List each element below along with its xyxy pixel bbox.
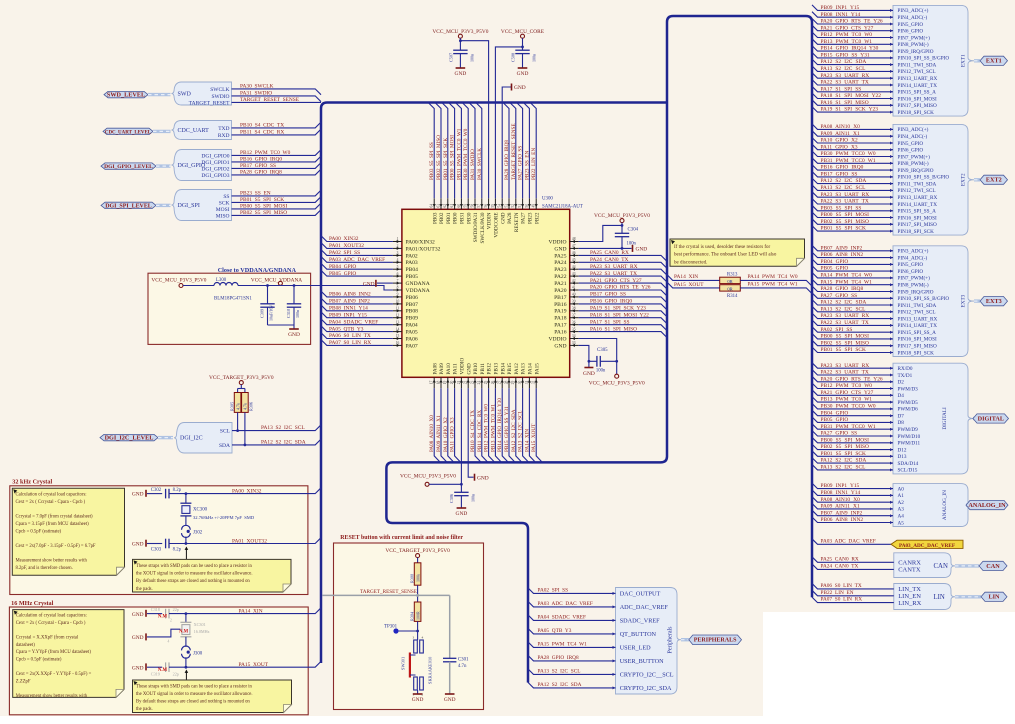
wire PB16_GPIO_IRQ0 xyxy=(579,304,667,310)
svg-text:CRYPTO_I2C_SDA: CRYPTO_I2C_SDA xyxy=(620,685,672,692)
wire PA23 S3 UART RX xyxy=(812,313,893,319)
svg-text:By default these straps are cl: By default these straps are closed and n… xyxy=(136,579,250,584)
svg-text:C306: C306 xyxy=(449,494,454,503)
wire PB06_AIN8_INN2 xyxy=(321,291,393,297)
callout arrow (16MHz strap note) xyxy=(185,672,187,681)
svg-text:PA23 S3 UART RX: PA23 S3 UART RX xyxy=(821,313,870,319)
svg-text:PB14 GPIO IRQ14 Y30: PB14 GPIO IRQ14 Y30 xyxy=(821,46,879,52)
svg-text:PA09 AIN11 X1: PA09 AIN11 X1 xyxy=(436,415,442,452)
wire PA30_SWCLK xyxy=(232,89,322,95)
wire PB00 S5 SPI MOSI xyxy=(812,437,893,443)
svg-text:PB05 GPIO: PB05 GPIO xyxy=(821,417,849,423)
svg-text:GND: GND xyxy=(455,71,467,77)
svg-text:Close to VDDANA/GNDANA: Close to VDDANA/GNDANA xyxy=(218,267,297,274)
svg-text:TXD: TXD xyxy=(218,126,229,132)
svg-text:A4: A4 xyxy=(898,514,905,520)
svg-text:PB01 S5 SPI SCK: PB01 S5 SPI SCK xyxy=(821,451,867,457)
svg-text:GND: GND xyxy=(500,212,506,223)
svg-text:ANALOG_IN: ANALOG_IN xyxy=(968,502,1006,509)
capacitor C305 100n xyxy=(589,360,597,362)
svg-text:A0: A0 xyxy=(898,486,905,492)
inductor L300 BLM18PG471SN1 xyxy=(214,283,238,286)
wire PA14_XIN xyxy=(169,613,186,615)
svg-text:GND: GND xyxy=(466,363,472,374)
wire PA23 S3 UART RX xyxy=(812,363,893,369)
svg-text:SCK: SCK xyxy=(219,200,230,206)
svg-text:PIN7_PWM(+): PIN7_PWM(+) xyxy=(898,34,931,41)
svg-text:C310: C310 xyxy=(286,309,291,318)
svg-text:PA25: PA25 xyxy=(554,253,566,259)
svg-text:PIN8_PWM(-): PIN8_PWM(-) xyxy=(898,282,929,289)
svg-text:Peripherals: Peripherals xyxy=(668,626,674,654)
svg-text:PB01 S5 SPI SCK: PB01 S5 SPI SCK xyxy=(821,347,867,353)
svg-text:PB11 S4 CDC RX: PB11 S4 CDC RX xyxy=(240,130,284,136)
wire VDDCORE feed xyxy=(495,47,522,198)
wire PA13 S2 I2C SCL xyxy=(812,464,893,470)
svg-text:PB17 GPIO SS: PB17 GPIO SS xyxy=(821,172,858,178)
svg-text:PB17: PB17 xyxy=(554,295,567,301)
svg-text:PIN3_ADC(+): PIN3_ADC(+) xyxy=(898,126,929,133)
wire PA13 S2 I2C SCL (peripherals) xyxy=(528,669,616,675)
svg-text:PA02 SPI SS: PA02 SPI SS xyxy=(538,587,569,593)
wire PA08 AIN10 X0 (bottom) xyxy=(434,388,440,462)
wire PB13 PWM TC0 W1 (bottom) xyxy=(495,388,501,462)
svg-text:Cext = 2x ( Ccrystal - Cpara -: Cext = 2x ( Ccrystal - Cpara - Cpcb ) xyxy=(16,500,86,505)
svg-text:These straps with SMD pads can: These straps with SMD pads can be used t… xyxy=(136,684,253,689)
svg-text:52: 52 xyxy=(511,204,515,208)
note strap explanation (32kHz) xyxy=(133,559,292,592)
svg-text:PA15 XOUT: PA15 XOUT xyxy=(674,282,704,288)
ground GND (C508) xyxy=(518,67,528,69)
wire VDDIO(34) to VCC xyxy=(579,339,617,375)
svg-text:DIGITAL: DIGITAL xyxy=(978,415,1004,422)
svg-text:PA23 S3 UART RX: PA23 S3 UART RX xyxy=(590,264,638,270)
svg-text:Ccrystal = X.XXpF (from crysta: Ccrystal = X.XXpF (from crystal xyxy=(16,636,79,641)
svg-text:Cpara = 3.15pF (from MCU datas: Cpara = 3.15pF (from MCU datasheet) xyxy=(16,522,90,527)
wire PA22_S3_UART_TX xyxy=(579,276,667,282)
harness cable DGI_SPI xyxy=(156,204,171,207)
svg-text:PB30: PB30 xyxy=(466,212,472,224)
svg-text:32.768kHz +/-20PPM 7pF SMD: 32.768kHz +/-20PPM 7pF SMD xyxy=(193,515,255,520)
wire PB01 S5 SPI SCK (top) xyxy=(442,103,448,199)
svg-text:PA09: PA09 xyxy=(439,363,445,375)
wire PB17 GPIO SS xyxy=(812,171,893,177)
svg-text:48: 48 xyxy=(572,237,576,241)
svg-text:PB10: PB10 xyxy=(473,363,479,375)
svg-text:55: 55 xyxy=(491,204,495,208)
svg-text:PIN17_SPI_MISO: PIN17_SPI_MISO xyxy=(898,344,937,350)
wire PA28 GPIO IRQ8 xyxy=(812,286,893,292)
svg-text:63: 63 xyxy=(436,204,440,208)
wire VDDIO(bottom) to VCC xyxy=(460,388,462,492)
wire PB22 LIN EN (top) xyxy=(530,103,536,199)
svg-text:PB16 GPIO IRQ0: PB16 GPIO IRQ0 xyxy=(590,299,632,305)
svg-text:PB02: PB02 xyxy=(439,212,445,224)
svg-text:PA00 XIN32: PA00 XIN32 xyxy=(232,488,262,494)
svg-text:PIN18_SPI_SCK: PIN18_SPI_SCK xyxy=(898,110,935,116)
svg-text:PIN8_PWM(-): PIN8_PWM(-) xyxy=(898,41,929,48)
harness connector CDC_UART xyxy=(172,121,232,140)
wire PB13 PWM TC0 W1 xyxy=(812,397,893,403)
svg-text:50: 50 xyxy=(525,204,529,208)
wire PB06 AIN8 INN2 xyxy=(812,517,893,523)
svg-text:PA04: PA04 xyxy=(406,323,418,329)
svg-text:4: 4 xyxy=(168,639,170,643)
wire PA02 SPI SS (peripherals) xyxy=(528,588,616,594)
svg-text:D8: D8 xyxy=(898,420,905,426)
svg-text:PB15: PB15 xyxy=(507,363,513,375)
svg-text:9: 9 xyxy=(397,293,399,297)
svg-text:Cext = 2x ( Ccrystal - Cpara -: Cext = 2x ( Ccrystal - Cpara - Cpcb ) xyxy=(16,621,86,626)
svg-text:PA18: PA18 xyxy=(554,316,566,322)
svg-text:PIN6_GPIO: PIN6_GPIO xyxy=(898,269,924,275)
svg-text:100k: 100k xyxy=(415,574,420,582)
wire PA21 GPIO CTS Y27 xyxy=(812,25,893,31)
svg-text:4.7k: 4.7k xyxy=(243,403,248,410)
wire PB04 GPIO xyxy=(812,410,893,416)
svg-text:Calculation of crystal load ca: Calculation of crystal load capacitors: xyxy=(16,493,87,498)
harness connector LIN xyxy=(894,584,955,610)
wire PA18_S1_SPI_MOSI_Y22 xyxy=(579,318,667,324)
svg-text:14: 14 xyxy=(396,327,400,331)
wire GNDANA to chip xyxy=(377,282,393,284)
wire PA11 GPIO X3 xyxy=(812,144,893,150)
wire PB09 INP1 Y15 xyxy=(812,5,893,10)
wire R306 to SDA xyxy=(244,412,246,445)
wire harness bus (left vertical + top horizontal) xyxy=(321,103,667,664)
svg-text:PB04 GPIO: PB04 GPIO xyxy=(329,264,356,270)
svg-text:SS: SS xyxy=(223,194,229,200)
svg-text:PB01: PB01 xyxy=(446,212,452,224)
svg-text:PA17 S1 SPI SS: PA17 S1 SPI SS xyxy=(590,319,630,325)
svg-text:PA22 S3 UART TX: PA22 S3 UART TX xyxy=(821,370,869,376)
ground GND (C306) xyxy=(457,507,467,509)
svg-text:PIN12_TWI_SCL: PIN12_TWI_SCL xyxy=(898,188,936,194)
harness connector DGI_GPIO xyxy=(172,150,232,181)
svg-text:PB12 PWM TC0 W0: PB12 PWM TC0 W0 xyxy=(821,383,873,389)
wire PA22 S3 UART TX xyxy=(812,320,893,326)
svg-text:100R: 100R xyxy=(415,611,420,620)
svg-text:60: 60 xyxy=(457,204,461,208)
wire VDDIN feed xyxy=(460,41,488,199)
svg-text:D13: D13 xyxy=(898,454,907,460)
svg-text:PA15 PWM TC4 W1: PA15 PWM TC4 W1 xyxy=(748,282,798,288)
svg-text:L300: L300 xyxy=(216,278,227,283)
svg-text:EXT3: EXT3 xyxy=(986,298,1002,305)
wire PB09 INP1 Y15 xyxy=(812,483,893,489)
wire PA13 S2 I2C SCL xyxy=(812,185,893,191)
svg-text:PIN10_SPI_SS_B/GPIO: PIN10_SPI_SS_B/GPIO xyxy=(898,296,950,302)
svg-text:SWD: SWD xyxy=(178,92,192,98)
svg-text:PA01 XOUT32: PA01 XOUT32 xyxy=(232,538,267,544)
wire PB31 PWM TCC0 W1 xyxy=(812,424,893,430)
svg-text:PA28 GPIO IRQ8: PA28 GPIO IRQ8 xyxy=(504,140,510,180)
svg-text:PA18 S1 SPI MOSI Y22: PA18 S1 SPI MOSI Y22 xyxy=(821,93,882,99)
svg-text:PB17 GPIO SS: PB17 GPIO SS xyxy=(240,163,276,169)
svg-text:PA12 S2 I2C SDA: PA12 S2 I2C SDA xyxy=(821,300,867,306)
wire PA22 S3 UART TX xyxy=(812,199,893,205)
svg-text:PA03 ADC DAC VREF: PA03 ADC DAC VREF xyxy=(329,257,385,263)
svg-text:PIN12_TWI_SCL: PIN12_TWI_SCL xyxy=(898,69,936,75)
svg-text:PB15 GPIO SS Y31: PB15 GPIO SS Y31 xyxy=(504,406,510,452)
svg-text:PA14 PWM TC4 W0: PA14 PWM TC4 W0 xyxy=(748,274,798,280)
power port VCC_MCU_P3V3_P5V0 (C305) xyxy=(615,374,619,378)
svg-text:PB13 PWM TC0 W1: PB13 PWM TC0 W1 xyxy=(821,39,873,45)
svg-text:TX/D1: TX/D1 xyxy=(898,373,913,379)
wire PA14 PWM TC4 W0 xyxy=(812,272,893,278)
svg-text:PA12 S2 I2C SDA: PA12 S2 I2C SDA xyxy=(821,59,867,65)
svg-text:100n: 100n xyxy=(532,54,537,62)
svg-text:VDDIN: VDDIN xyxy=(487,212,493,229)
svg-text:PB00 S5 SPI MOSI: PB00 S5 SPI MOSI xyxy=(821,334,870,340)
svg-text:PA14 XIN: PA14 XIN xyxy=(524,429,530,452)
capacitor C309 10uF/16V xyxy=(267,286,269,304)
wire PA08 AIN10 X0 xyxy=(812,497,893,503)
wire PB09_INP1_Y15 xyxy=(321,312,393,318)
svg-text:37: 37 xyxy=(572,313,576,317)
svg-text:PA05 QTB Y3: PA05 QTB Y3 xyxy=(329,326,364,332)
svg-text:GND: GND xyxy=(132,542,144,548)
wire PA03_ADC_DAC_VREF (right) xyxy=(812,539,891,545)
wire PA16 S1 SPI MISO xyxy=(812,100,893,106)
svg-text:PB16 GPIO IRQ0: PB16 GPIO IRQ0 xyxy=(240,157,282,163)
wire PA09 AIN11 X1 (bottom) xyxy=(441,388,447,462)
harness connector EXT1 xyxy=(893,5,974,116)
svg-text:PB16: PB16 xyxy=(554,302,567,308)
svg-text:PB12 PWM TC0 W0: PB12 PWM TC0 W0 xyxy=(240,150,291,156)
wire PA15 PWM TC4 W1 (peripherals) xyxy=(528,642,616,648)
svg-text:PB00 S5 SPI MOSI: PB00 S5 SPI MOSI xyxy=(240,204,287,210)
svg-text:D7: D7 xyxy=(898,414,905,420)
wire PA14_PWM_TC4_W0 xyxy=(740,280,812,286)
wire PB23 SS EN (top) xyxy=(523,103,529,199)
svg-text:51: 51 xyxy=(518,204,522,208)
capacitor C310 100n xyxy=(293,286,295,304)
svg-text:DGI_GPIO1: DGI_GPIO1 xyxy=(201,160,229,166)
svg-text:GND: GND xyxy=(517,71,529,77)
resistor R314 0R xyxy=(720,285,741,291)
svg-text:PA08 AIN10 X0: PA08 AIN10 X0 xyxy=(429,415,435,452)
wire PB07 AIN9 INP2 xyxy=(812,245,893,251)
harness cable SWD xyxy=(148,93,171,96)
wire PB23_SS_EN xyxy=(232,190,322,196)
svg-text:PIN9_IRQ/GPIO: PIN9_IRQ/GPIO xyxy=(898,49,934,55)
wire PA20_GPIO_RTS_TE_Y26 xyxy=(579,290,667,296)
svg-text:C309: C309 xyxy=(259,309,264,318)
svg-text:54: 54 xyxy=(498,204,502,208)
wire PA24_CAN0_TX xyxy=(579,262,667,268)
svg-text:PIN13_UART_RX: PIN13_UART_RX xyxy=(898,76,938,82)
wire PB03 S5 SPI SS (top) xyxy=(428,103,434,199)
svg-text:PB31: PB31 xyxy=(460,212,466,224)
wire PB11 S4 CDC RX (bottom) xyxy=(482,388,488,462)
svg-text:PA27 GPIO SS: PA27 GPIO SS xyxy=(821,431,858,437)
svg-text:DGI_SPI_LEVEL: DGI_SPI_LEVEL xyxy=(105,203,152,209)
svg-text:PB22: PB22 xyxy=(534,212,540,224)
svg-text:16: 16 xyxy=(396,341,400,345)
svg-text:PIN16_SPI_MOSI: PIN16_SPI_MOSI xyxy=(898,96,937,102)
wire PA15_PWM_TC4_W1 xyxy=(740,288,812,294)
wire PA24_CAN0_TX (right) xyxy=(812,564,894,570)
wire PA27 GPIO SS (top) xyxy=(517,103,523,199)
svg-text:GND: GND xyxy=(514,85,526,91)
wire pull-up feed xyxy=(240,385,242,389)
svg-text:12: 12 xyxy=(396,313,400,317)
svg-text:PA28: PA28 xyxy=(507,212,513,224)
wire PA28 GPIO IRQ8 (peripherals) xyxy=(528,655,616,661)
svg-text:PB17 GPIO SS: PB17 GPIO SS xyxy=(590,292,626,298)
svg-text:PWM/D9: PWM/D9 xyxy=(898,427,919,433)
svg-text:PB15 GPIO SS Y31: PB15 GPIO SS Y31 xyxy=(821,53,870,59)
svg-text:TARGET RESET SENSE: TARGET RESET SENSE xyxy=(511,123,517,180)
svg-text:21: 21 xyxy=(457,381,461,385)
harness connector EXT3 xyxy=(893,246,974,357)
wire PB16_GPIO_IRQ0 xyxy=(232,156,322,162)
svg-text:PB13 PWM TC0 W1: PB13 PWM TC0 W1 xyxy=(821,397,873,403)
wire PA13 S2 I2C SCL xyxy=(812,306,893,312)
svg-text:PB31 PWM TCC0 W1: PB31 PWM TCC0 W1 xyxy=(821,424,876,430)
svg-text:PA04 SDADC VREF: PA04 SDADC VREF xyxy=(329,319,378,325)
svg-text:16.0MHz: 16.0MHz xyxy=(194,629,210,634)
svg-text:PB01 S5 SPI SCK: PB01 S5 SPI SCK xyxy=(240,197,284,203)
svg-text:PA15: PA15 xyxy=(534,363,540,375)
svg-text:TARGET_RESET: TARGET_RESET xyxy=(189,100,230,106)
svg-text:PA07 S0 LIN RX: PA07 S0 LIN RX xyxy=(821,597,863,603)
wire PA05_QTB_Y3 xyxy=(321,326,393,332)
svg-text:PIN5_GPIO: PIN5_GPIO xyxy=(898,262,924,268)
svg-text:PIN3_ADC(+): PIN3_ADC(+) xyxy=(898,248,929,255)
wire PB01_S5_SPI_SCK xyxy=(232,197,322,203)
port LIN xyxy=(981,592,1007,601)
svg-text:VDDANA: VDDANA xyxy=(406,288,430,294)
note crystal load capacitor calculation (16MHz) xyxy=(13,610,124,698)
svg-text:Cext = 2x(X.XXpF - Y.YYpF - 0.: Cext = 2x(X.XXpF - Y.YYpF - 0.5pF) = xyxy=(16,672,92,677)
svg-text:0R: 0R xyxy=(727,279,733,284)
svg-text:GND: GND xyxy=(132,612,144,618)
svg-text:PB03: PB03 xyxy=(432,212,438,224)
svg-text:PA13 S2 I2C SCL: PA13 S2 I2C SCL xyxy=(821,185,866,191)
svg-text:PIN4_ADC(-): PIN4_ADC(-) xyxy=(898,254,928,261)
svg-text:100n: 100n xyxy=(470,54,475,62)
svg-text:10uF/16V: 10uF/16V xyxy=(269,305,274,321)
svg-text:PA20 GPIO RTS TE Y26: PA20 GPIO RTS TE Y26 xyxy=(590,285,651,291)
switch SW301 SKRAAKE010 xyxy=(414,640,418,653)
svg-text:PA17: PA17 xyxy=(554,323,566,329)
capacitor C301 4.7n xyxy=(449,595,451,658)
svg-text:TARGET_RESET_SENSE: TARGET_RESET_SENSE xyxy=(360,589,417,595)
svg-text:GND: GND xyxy=(583,371,595,377)
svg-text:PA16 S1 SPI MISO: PA16 S1 SPI MISO xyxy=(821,100,869,106)
svg-text:PIN3_ADC(+): PIN3_ADC(+) xyxy=(898,7,929,14)
wire PA27 GPIO SS xyxy=(812,431,893,437)
svg-text:N.M: N.M xyxy=(158,668,168,673)
harness cable ANALOG_IN xyxy=(966,503,974,506)
port EXT3 xyxy=(980,297,1008,306)
wire PB15 GPIO SS Y31 xyxy=(812,52,893,58)
svg-text:PA21 GPIO CTS Y27: PA21 GPIO CTS Y27 xyxy=(590,278,642,284)
svg-text:A3: A3 xyxy=(898,507,905,513)
svg-text:58: 58 xyxy=(470,204,474,208)
svg-text:PA19 S1 SPI SCK Y23: PA19 S1 SPI SCK Y23 xyxy=(590,306,646,312)
svg-text:PB07: PB07 xyxy=(406,302,419,308)
svg-text:PB05 GPIO: PB05 GPIO xyxy=(821,266,849,272)
svg-text:DGI_I2C: DGI_I2C xyxy=(180,436,203,442)
svg-text:SAMC21J18A-AUT: SAMC21J18A-AUT xyxy=(542,205,583,210)
svg-text:PB30 PWM TCC0 W0: PB30 PWM TCC0 W0 xyxy=(821,151,876,157)
svg-text:SKRAAKE010: SKRAAKE010 xyxy=(428,656,433,684)
svg-text:39: 39 xyxy=(572,300,576,304)
svg-text:PA18 S1 SPI MOSI Y22: PA18 S1 SPI MOSI Y22 xyxy=(590,312,649,318)
wire PB05_GPIO xyxy=(321,270,393,276)
svg-text:49: 49 xyxy=(532,204,536,208)
harness connector SWD xyxy=(172,82,232,105)
svg-text:PA24 CAN0 TX: PA24 CAN0 TX xyxy=(821,563,859,569)
wire PA23 S3 UART RX xyxy=(812,192,893,198)
svg-text:SWDIO: SWDIO xyxy=(211,94,229,100)
svg-text:DGI_GPIO0: DGI_GPIO0 xyxy=(201,153,229,159)
wire PB08 INN1 Y14 xyxy=(812,12,893,18)
port EXT2 xyxy=(980,175,1008,184)
svg-text:A1: A1 xyxy=(898,493,905,499)
svg-text:100n: 100n xyxy=(295,310,300,318)
harness cable EXT2 xyxy=(974,178,980,181)
svg-text:6: 6 xyxy=(397,272,399,276)
svg-text:C507: C507 xyxy=(448,53,453,62)
svg-text:PA06 S0 LIN TX: PA06 S0 LIN TX xyxy=(821,583,862,589)
svg-text:PA02 SPI SS: PA02 SPI SS xyxy=(821,327,853,333)
wire PA27 GPIO SS xyxy=(812,293,893,299)
ground GND bar (C304) xyxy=(632,245,634,252)
svg-text:PIN15_SPI_SS_A: PIN15_SPI_SS_A xyxy=(898,330,937,336)
wire PA06_S0_LIN_TX xyxy=(321,333,393,339)
svg-text:PA23 S3 UART RX: PA23 S3 UART RX xyxy=(821,73,870,79)
svg-text:PA30 SWCLK: PA30 SWCLK xyxy=(477,148,483,180)
svg-text:GND: GND xyxy=(554,246,566,252)
svg-text:PA23: PA23 xyxy=(554,267,566,273)
wire PB11_S4_CDC_RX xyxy=(232,129,322,135)
svg-text:PB10 S4 CDC TX: PB10 S4 CDC TX xyxy=(470,410,476,452)
svg-text:GND: GND xyxy=(456,511,468,517)
svg-text:PA11 GPIO X3: PA11 GPIO X3 xyxy=(450,417,456,452)
svg-text:PERIPHERALS: PERIPHERALS xyxy=(694,638,737,644)
svg-text:PB30 PWM TCC0 W0: PB30 PWM TCC0 W0 xyxy=(463,128,469,180)
note strap explanation (16MHz) xyxy=(133,680,292,713)
svg-text:PIN12_TWI_SCL: PIN12_TWI_SCL xyxy=(898,310,936,316)
svg-text:PA01/XOUT32: PA01/XOUT32 xyxy=(406,246,441,252)
wire PA28 GPIO IRQ8 (top) xyxy=(503,103,509,199)
svg-text:PA27 GPIO SS: PA27 GPIO SS xyxy=(518,146,524,180)
svg-text:GND: GND xyxy=(412,697,424,703)
harness connector ANALOG_IN xyxy=(893,484,974,527)
svg-text:32 kHz Crystal: 32 kHz Crystal xyxy=(12,478,52,485)
wire PA17 S1 SPI SS xyxy=(812,86,893,92)
svg-text:TARGET RESET SENSE: TARGET RESET SENSE xyxy=(240,97,300,103)
svg-text:PB00 S5 SPI MOSI: PB00 S5 SPI MOSI xyxy=(450,135,456,180)
svg-text:PA12 S2 I2C SDA: PA12 S2 I2C SDA xyxy=(511,409,517,452)
svg-text:PA21 GPIO CTS Y27: PA21 GPIO CTS Y27 xyxy=(821,390,874,396)
svg-text:32: 32 xyxy=(532,381,536,385)
svg-text:GND: GND xyxy=(132,665,144,671)
svg-text:47: 47 xyxy=(572,244,576,248)
wire PA23 S3 UART RX xyxy=(812,73,893,79)
wire PA25_CAN0_RX (right) xyxy=(812,557,894,563)
wire TARGET_RESET_SENSE (grey) xyxy=(323,594,450,596)
svg-text:PIN4_ADC(-): PIN4_ADC(-) xyxy=(898,14,928,21)
MCU U300 SAMC21J18A-AUT body xyxy=(402,209,570,377)
svg-text:PB22 LIN EN: PB22 LIN EN xyxy=(531,148,537,180)
svg-text:PB05 GPIO: PB05 GPIO xyxy=(329,271,356,277)
svg-text:57: 57 xyxy=(477,204,481,208)
